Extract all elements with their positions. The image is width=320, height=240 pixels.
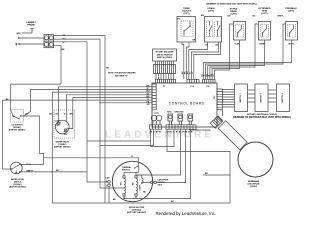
water valve feed 2 bbox=[66, 95, 68, 122]
svg-text:SWITCH: SWITCH bbox=[122, 169, 130, 171]
svg-text:(EXPORT 240VAC): (EXPORT 240VAC) bbox=[54, 145, 71, 148]
switch S4 wire left down bbox=[210, 24, 259, 79]
switch S2 wire 3 bbox=[194, 42, 221, 79]
water valve coil cold bbox=[57, 122, 61, 126]
switch S3 box bbox=[234, 22, 246, 41]
rotary switch 1 bbox=[235, 84, 248, 112]
water valve terminals bbox=[55, 124, 69, 129]
svg-text:W: W bbox=[64, 114, 66, 116]
P4 wire labels bbox=[202, 73, 215, 76]
svg-text:(EXPORT 240VAC): (EXPORT 240VAC) bbox=[9, 128, 26, 131]
switch S4 wire bottom down bbox=[208, 40, 265, 79]
wire labels BK BU W bbox=[62, 35, 66, 51]
switch S4 inner dashed bbox=[260, 25, 268, 38]
svg-text:SWITCH 1: SWITCH 1 bbox=[240, 92, 242, 102]
svg-text:FRAME: FRAME bbox=[27, 23, 35, 26]
wire connector to vertical x=88.5 bbox=[54, 41, 87, 43]
motor right feed 3 bbox=[124, 129, 191, 198]
motor right feed 2 bbox=[185, 129, 187, 183]
capacitor export bbox=[151, 181, 157, 184]
note for export washer bbox=[108, 72, 136, 78]
lid switch feed bbox=[11, 84, 13, 116]
relay 2 bbox=[178, 114, 183, 125]
svg-text:Rendered by LeadVenture, Inc.: Rendered by LeadVenture, Inc. bbox=[156, 211, 217, 216]
membrane connector wire 2 bbox=[222, 109, 224, 116]
bus wire 8 bbox=[100, 102, 152, 104]
board bottom wire loop 1 bbox=[151, 129, 175, 146]
bus wire 2 bbox=[59, 86, 153, 88]
motor winding aux bbox=[136, 179, 138, 194]
full node to motor wire bbox=[44, 157, 139, 159]
connector pins to P1 bbox=[156, 74, 174, 80]
switch S2 contacts bbox=[209, 21, 220, 37]
bus wire 1 lid switch bbox=[11, 83, 61, 85]
bus wire 3 bbox=[31, 88, 153, 90]
board transformer bbox=[151, 113, 162, 121]
switch S1 contacts bbox=[183, 21, 190, 37]
water level switch bbox=[10, 162, 22, 174]
lid switch caption bbox=[9, 124, 26, 131]
switch S5 contacts bbox=[289, 25, 294, 37]
capacitor main bbox=[106, 181, 110, 187]
svg-text:SWITCH 2: SWITCH 2 bbox=[261, 92, 263, 102]
svg-text:P10: P10 bbox=[191, 86, 194, 88]
switch S2 box bbox=[205, 17, 222, 43]
svg-text:BU/BK: BU/BK bbox=[260, 44, 267, 46]
water level switch caption bbox=[9, 178, 26, 189]
full contact wire bbox=[20, 163, 43, 165]
board bottom wire y145.5 bbox=[100, 129, 154, 145]
water level switch lever bbox=[11, 164, 20, 173]
thermal to winding wire bbox=[124, 169, 139, 176]
svg-text:(NUMBER OF SWITCHES MAY VARY W: (NUMBER OF SWITCHES MAY VARY WITH MODEL) bbox=[233, 116, 291, 119]
long vertical wire bbox=[99, 39, 101, 188]
cap export label bbox=[158, 179, 170, 187]
motor winding main bbox=[124, 179, 126, 194]
switch S5 box bbox=[286, 22, 298, 41]
svg-text:(NUMBER OF SWITCHES MAY VARY W: (NUMBER OF SWITCHES MAY VARY WITH MODEL) bbox=[206, 2, 257, 5]
relay 3 bbox=[188, 114, 193, 125]
long vertical wire BK bbox=[104, 36, 106, 203]
wire to connector pin 1 bbox=[18, 37, 44, 39]
water level switch feed bbox=[2, 100, 4, 169]
wires switch 2 to 3 bbox=[268, 90, 277, 102]
switch S1 inner dashed bbox=[181, 21, 193, 37]
start winding bbox=[137, 175, 143, 184]
motor caption bbox=[127, 207, 146, 214]
switch S5 wire bottom down bbox=[203, 40, 291, 79]
header left P3 bbox=[152, 84, 156, 110]
svg-text:START: START bbox=[139, 184, 142, 190]
switch S1 box bbox=[177, 17, 196, 43]
svg-text:SWITCH (12VDC): SWITCH (12VDC) bbox=[157, 57, 173, 59]
bottom header B bbox=[166, 125, 196, 129]
empty contact wire bbox=[20, 171, 87, 173]
rotary switch 2 bbox=[255, 84, 268, 112]
rotary switch 3 bbox=[277, 84, 290, 112]
svg-text:GRN: GRN bbox=[16, 33, 21, 35]
switch S3 wire bottom down bbox=[212, 40, 239, 79]
right loop stub bbox=[203, 174, 230, 176]
svg-text:(12VDC): (12VDC) bbox=[250, 186, 258, 188]
bottom header A bbox=[150, 125, 162, 129]
thermal switch bbox=[134, 166, 139, 169]
wire connector bottom to lid switch feed bbox=[54, 46, 61, 84]
wire to connector pin 3 bbox=[16, 43, 44, 46]
svg-text:WH/YL: WH/YL bbox=[289, 44, 296, 46]
switch S4 EXTENDED SPIN label bbox=[259, 8, 271, 15]
switch S4 box bbox=[259, 22, 271, 41]
switch S3 contacts bbox=[237, 25, 242, 37]
water valve body bbox=[56, 120, 70, 134]
header P1 bbox=[156, 79, 176, 83]
svg-text:CONTROL BOARD: CONTROL BOARD bbox=[169, 101, 205, 105]
lid switch contacts bbox=[12, 115, 21, 119]
thermal switch label bbox=[122, 166, 132, 171]
membrane stem bbox=[218, 121, 247, 150]
svg-text:(OPT): (OPT) bbox=[208, 11, 214, 13]
bus wire 5 bbox=[67, 94, 152, 96]
ground symbol bbox=[22, 28, 34, 33]
svg-text:(OPT): (OPT) bbox=[262, 13, 268, 15]
switch S3 inner dashed bbox=[235, 25, 243, 38]
valve feed labels bbox=[49, 114, 73, 116]
cap bottom wire bbox=[108, 187, 110, 203]
lid right contact riser bbox=[24, 89, 31, 116]
svg-text:NOTE: FOR EXPORT WASHER: NOTE: FOR EXPORT WASHER bbox=[108, 72, 136, 75]
svg-text:P12: P12 bbox=[214, 96, 216, 99]
wires switch 1 to 2 bbox=[248, 90, 256, 102]
cabinet frame ground label bbox=[26, 21, 36, 27]
svg-text:(OPT): (OPT) bbox=[288, 11, 294, 13]
water level switch feed wire bbox=[3, 168, 12, 170]
wires P12 to switch 1 bbox=[222, 90, 234, 108]
switch S2 inner dashed left bbox=[206, 21, 213, 37]
svg-text:ROTARY ENCODER: ROTARY ENCODER bbox=[156, 51, 174, 54]
switch S5 PREWASH label bbox=[285, 7, 296, 13]
rotary encoder connector bbox=[154, 65, 176, 74]
wire connector to vertical x=94.5 bbox=[54, 38, 100, 40]
water valve caption bbox=[54, 140, 71, 148]
svg-text:CABINET: CABINET bbox=[26, 21, 36, 24]
membrane connector bbox=[210, 116, 223, 129]
wire connector to vertical x=100.5 bbox=[54, 35, 105, 37]
svg-text:COLD: COLD bbox=[55, 121, 61, 123]
water valve box bbox=[54, 110, 75, 138]
water valve feed 1 bbox=[58, 87, 60, 123]
water valve feed 3 bbox=[69, 98, 72, 129]
svg-text:WH/YL: WH/YL bbox=[278, 16, 285, 18]
bottom header labels bbox=[150, 132, 193, 134]
P10 wire labels bbox=[182, 71, 194, 74]
board bottom wire y141 bbox=[87, 140, 151, 142]
switch S2 inner dashed right bbox=[214, 21, 221, 37]
rotary encoder wires to connector bbox=[156, 61, 174, 65]
switch S1 TIMED FAUCET label bbox=[182, 8, 191, 15]
switch S3 wire left down bbox=[214, 24, 233, 79]
winding terminals bbox=[123, 176, 137, 196]
header right P12 bbox=[217, 89, 222, 109]
svg-text:SWITCH 3: SWITCH 3 bbox=[282, 92, 284, 102]
membrane connector wire bbox=[190, 128, 211, 131]
water valve coil hot bbox=[64, 128, 68, 132]
bus wire 4 bbox=[52, 91, 152, 93]
drive motor bbox=[112, 161, 152, 201]
header P10 bbox=[187, 79, 199, 83]
svg-text:DIRECTION: DIRECTION bbox=[175, 112, 185, 114]
svg-text:(EXPORT 240VAC): (EXPORT 240VAC) bbox=[127, 211, 146, 214]
transformer stubs bbox=[153, 121, 160, 125]
svg-text:W: W bbox=[63, 42, 65, 44]
switch S3 EXTRA RINSE label bbox=[230, 7, 238, 15]
svg-text:AND ACTIVATION: AND ACTIVATION bbox=[157, 53, 173, 56]
control board bbox=[152, 83, 217, 127]
svg-text:SEE VIEW "A": SEE VIEW "A" bbox=[115, 75, 128, 78]
lid switch box bbox=[11, 110, 24, 123]
long drop to motor loop bbox=[51, 92, 53, 203]
switch S2 wire labels bbox=[206, 45, 219, 47]
switch S1 pin labels bbox=[178, 19, 196, 42]
rotary encoder note text bbox=[156, 51, 174, 60]
lid switch output bbox=[21, 116, 44, 164]
rotary encoder note box bbox=[153, 49, 177, 61]
bus wire 6 bbox=[73, 97, 152, 99]
junction bbox=[52, 171, 53, 172]
svg-text:FUSE: FUSE bbox=[167, 112, 171, 114]
svg-text:(120VAC): (120VAC) bbox=[132, 209, 142, 212]
switch S2 DRAIN label bbox=[208, 7, 215, 13]
winding junction dots bbox=[123, 198, 124, 199]
motor lower feed bbox=[100, 187, 123, 189]
svg-text:YL/RD: YL/RD bbox=[235, 44, 241, 46]
svg-text:(EXPORT 240VAC): (EXPORT 240VAC) bbox=[9, 186, 26, 189]
svg-text:(OPT): (OPT) bbox=[184, 13, 190, 15]
start winding to cap export wire bbox=[142, 182, 186, 184]
line cord connector bbox=[44, 35, 54, 48]
bus wire 7 bbox=[3, 99, 153, 101]
switch S5 wire left down bbox=[206, 24, 286, 79]
membrane caption bbox=[247, 180, 260, 188]
rotary switches caption bbox=[233, 113, 291, 119]
svg-text:P1: P1 bbox=[163, 86, 165, 88]
bus wire labels bbox=[147, 85, 151, 106]
water level switch pivot bbox=[15, 171, 17, 173]
membrane LED display bbox=[238, 142, 273, 177]
relay 1 bbox=[168, 114, 173, 125]
motor right feed 1 bbox=[137, 129, 181, 175]
switch S1 wires down bbox=[182, 42, 184, 79]
svg-text:(OPT): (OPT) bbox=[231, 13, 237, 15]
winding bottom wires bbox=[124, 196, 136, 198]
board bottom wire to right loop bbox=[52, 129, 230, 203]
header P4 bbox=[203, 79, 216, 83]
switch S4 contacts bbox=[262, 25, 267, 37]
switch S2 wires down bbox=[189, 42, 208, 79]
thermal feed wire bbox=[138, 158, 140, 168]
switch S5 inner dashed bbox=[287, 25, 295, 38]
cap feed wire bbox=[87, 181, 108, 183]
long vertical wire bbox=[86, 42, 88, 182]
